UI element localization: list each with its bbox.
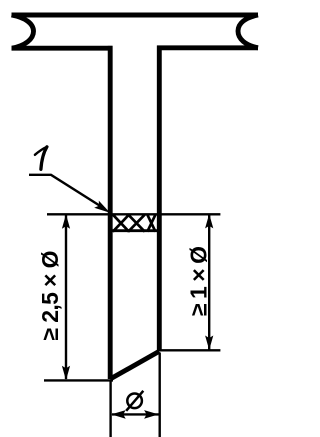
svg-text:≥ 2,5 × Ø: ≥ 2,5 × Ø (37, 251, 63, 341)
svg-text:≥ 1 × Ø: ≥ 1 × Ø (185, 246, 211, 316)
